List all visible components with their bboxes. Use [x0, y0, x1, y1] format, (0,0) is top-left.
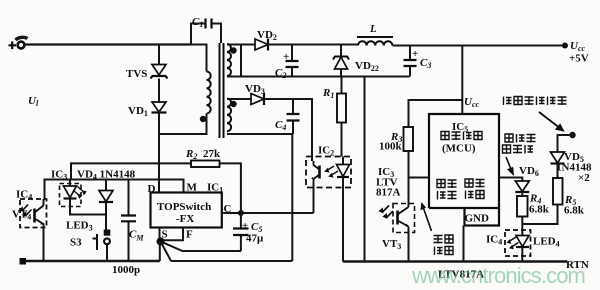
- capacitor C3: [404, 46, 432, 77]
- resistor R4: [517, 193, 550, 217]
- capacitor CM: [112, 180, 144, 277]
- svg-text:www.cntronics.com: www.cntronics.com: [411, 263, 585, 288]
- label external start signal chinese: [504, 97, 567, 106]
- resistor R2: [185, 148, 221, 167]
- wire VT3 emitter to rail: [408, 227, 410, 262]
- inductor L: [357, 23, 393, 46]
- svg-text:D: D: [148, 183, 156, 195]
- svg-text:+: +: [242, 220, 248, 232]
- optocoupler VT4 box IC4: [12, 189, 47, 228]
- wire remote node: [45, 180, 160, 200]
- LED3 symbol: [64, 180, 93, 233]
- node external signal terminal: [569, 132, 575, 138]
- phototransistor VT3: [380, 204, 415, 252]
- diode VD4: [99, 180, 113, 231]
- wire logic output to VD6: [499, 178, 522, 182]
- resistor R1: [322, 77, 346, 157]
- wire secondary ground to bottom rail: [364, 77, 366, 262]
- wire R3 to VT3 collector: [408, 151, 410, 207]
- transformer secondary 2 winding: [227, 99, 231, 132]
- switch S3: [70, 230, 110, 262]
- svg-text:+: +: [283, 51, 289, 63]
- wire secondary2 bottom return: [227, 134, 292, 261]
- label power switch control chinese: [503, 134, 536, 154]
- capacitor C2: [275, 46, 299, 81]
- node secondary1 polarity dot: [230, 47, 236, 53]
- capacitor C5: [233, 213, 264, 251]
- wire S pin: [159, 228, 161, 242]
- svg-text:TOPSwitch: TOPSwitch: [157, 201, 211, 213]
- arrow switch status: [421, 204, 431, 231]
- light arrows in IC2: [326, 166, 338, 177]
- node + input terminal: [9, 37, 28, 49]
- transformer T1 primary winding: [207, 72, 211, 114]
- wire IC2 emitter to C line: [313, 183, 315, 213]
- wire VD2 to L: [268, 44, 358, 46]
- diode VD6: [515, 165, 539, 192]
- label switch status chinese: [434, 235, 454, 255]
- wire VD3 to IC2 collector: [264, 99, 312, 161]
- optocoupler LED4 box: [486, 230, 560, 256]
- wire S to left rail: [159, 241, 161, 261]
- label logic input chinese: [437, 180, 457, 200]
- wire Ucc branch: [462, 46, 479, 115]
- svg-text:M: M: [187, 182, 198, 194]
- svg-text:+: +: [412, 48, 418, 60]
- wire logic input lead: [409, 177, 430, 179]
- node C junction dot: [238, 210, 244, 216]
- wire C1 branch up: [191, 24, 205, 45]
- wire LED4 to rail: [521, 256, 523, 262]
- label logic output chinese: [465, 179, 485, 199]
- IC1 TOPSwitch box: [151, 193, 222, 228]
- svg-text:TVS: TVS: [126, 68, 147, 80]
- input terminal negative square: [20, 258, 27, 265]
- svg-text:F: F: [186, 229, 193, 241]
- wire C1 right to core: [212, 24, 221, 44]
- svg-text:6.8k: 6.8k: [564, 205, 585, 217]
- wire VD5 to R5: [557, 164, 559, 179]
- optocoupler IC2: [306, 145, 351, 188]
- wire S diagonal to right rail: [161, 241, 172, 261]
- transformer core: [220, 43, 224, 138]
- LED3 dashed box: [60, 184, 82, 207]
- arrow power switch control: [506, 157, 513, 174]
- wire C pin: [222, 212, 314, 214]
- resistor R5: [553, 178, 585, 217]
- node output terminal: [562, 40, 589, 65]
- phototransistor VT4: [20, 199, 44, 261]
- wire L to +5V terminal: [393, 45, 566, 47]
- wire primary bottom to VD1 chain: [159, 114, 207, 135]
- wire R3 top branch: [409, 100, 463, 127]
- svg-text:GND: GND: [465, 213, 490, 225]
- svg-text:817A: 817A: [376, 187, 401, 199]
- wire M pin: [159, 180, 184, 193]
- svg-text:S3: S3: [70, 237, 82, 249]
- zener VD22: [333, 46, 379, 77]
- wire secondary2 top: [227, 98, 251, 100]
- wire IC2 LED cathode down: [342, 188, 344, 262]
- wire secondary1 top: [227, 44, 255, 46]
- node S junction dot: [157, 237, 165, 245]
- wire bottom rail right: [343, 260, 567, 262]
- wire secondary ground rail: [227, 76, 410, 78]
- wire mystery vertical: [240, 45, 242, 77]
- wire ext terminal to VD5: [558, 135, 573, 152]
- wire R2 right to C node: [220, 163, 241, 213]
- node secondary2 polarity dot: [230, 101, 236, 107]
- label IC3 LTV817A: [376, 166, 401, 199]
- svg-text:47μ: 47μ: [246, 233, 264, 245]
- svg-text:-FX: -FX: [176, 213, 194, 225]
- capacitor C1: [192, 16, 212, 29]
- wire LED3 cathode to S3: [70, 199, 107, 215]
- LED4 symbol: [508, 230, 529, 256]
- TVS: [126, 45, 168, 81]
- wire bottom rail middle: [171, 260, 292, 262]
- svg-text:+5V: +5V: [569, 53, 589, 65]
- resistor R3: [379, 127, 413, 153]
- phototransistor in IC2: [311, 161, 319, 184]
- svg-text:×2: ×2: [578, 172, 590, 184]
- wire VD1 to D pin: [158, 113, 160, 193]
- wire bottom rail left: [21, 260, 160, 262]
- wire primary top: [191, 45, 207, 72]
- diode VD5: [551, 151, 592, 184]
- svg-text:100k: 100k: [379, 141, 403, 153]
- svg-text:1000p: 1000p: [112, 264, 140, 276]
- wire F pin: [163, 228, 183, 241]
- svg-text:6.8k: 6.8k: [529, 204, 550, 216]
- microcontroller IC5 box: [429, 114, 499, 226]
- wire VD6 to R4: [521, 192, 523, 196]
- wire R4 to LED4: [521, 217, 523, 231]
- wire C5 bottom to S node: [161, 241, 241, 251]
- diode VD2: [255, 29, 277, 51]
- LED in IC2: [337, 157, 350, 188]
- node primary polarity dot: [200, 116, 206, 122]
- svg-text:L: L: [369, 23, 377, 35]
- svg-text:27k: 27k: [203, 148, 221, 160]
- label MCU chinese: [441, 132, 482, 141]
- capacitor C4: [275, 99, 300, 134]
- remote block top wire: [43, 179, 46, 181]
- wire R5 bottom to R4 line: [522, 205, 557, 225]
- arrow external start: [539, 112, 563, 131]
- diode VD1: [128, 79, 167, 119]
- wire GND lead: [463, 226, 465, 262]
- wire input top: [24, 43, 191, 45]
- svg-text:(MCU): (MCU): [442, 143, 476, 155]
- diode VD3: [245, 83, 265, 105]
- wire R2 left: [71, 163, 191, 179]
- transformer secondary 1 winding: [227, 44, 231, 76]
